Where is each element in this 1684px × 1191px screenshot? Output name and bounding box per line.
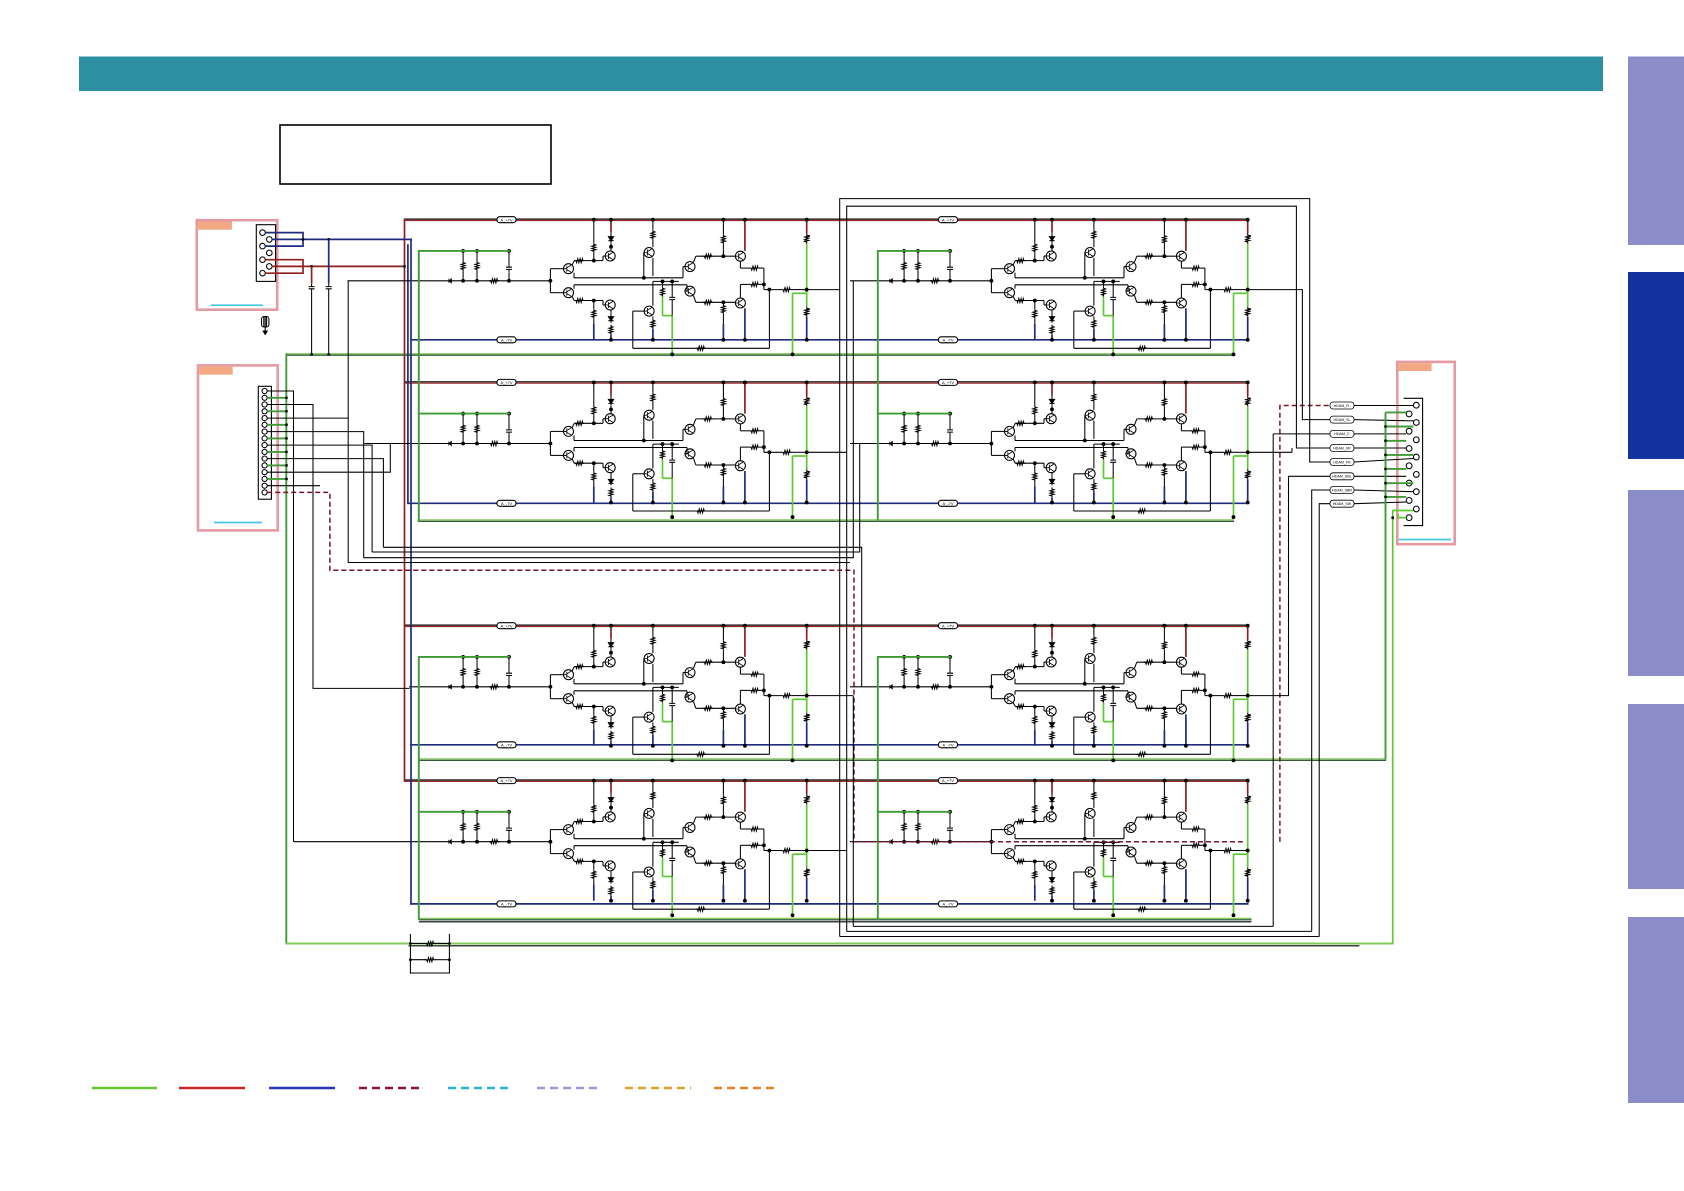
ground branch right rows3-4 bbox=[878, 657, 950, 919]
wire ground stubs J2 even pins bbox=[267, 398, 287, 479]
resistor RF1 bbox=[425, 942, 435, 946]
wire output row2 left bbox=[807, 451, 847, 453]
net tag A_-7V row3 left bbox=[497, 742, 516, 748]
board underline J3 bbox=[1399, 539, 1451, 541]
svg-text:HDAM_FL: HDAM_FL bbox=[1334, 404, 1351, 408]
amplifier block row4 right bbox=[850, 779, 1251, 917]
svg-text:HDAM_FR: HDAM_FR bbox=[1333, 460, 1351, 464]
pin J1-1 bbox=[260, 230, 266, 236]
MAIN SCHEMATIC bbox=[286, 219, 1385, 922]
legend cyan dashed bbox=[448, 1087, 513, 1090]
board underline J1 bbox=[211, 304, 263, 306]
sidebar tab 5 bbox=[1628, 917, 1684, 1103]
supply trunk blue left second bbox=[407, 245, 409, 503]
connector J2 shell bbox=[258, 386, 271, 499]
svg-text:HDAM_C: HDAM_C bbox=[1334, 432, 1350, 436]
legend green solid bbox=[92, 1087, 157, 1090]
board underline J2 bbox=[214, 522, 262, 524]
ground branch right row4 top bbox=[878, 811, 950, 813]
pin J1-7 bbox=[260, 270, 266, 276]
sidebar tab 4 bbox=[1628, 704, 1684, 889]
legend blue solid bbox=[269, 1087, 335, 1090]
wire signal J2 pin11 bbox=[267, 459, 383, 548]
power rail -7V row3 bbox=[411, 744, 1248, 746]
wire signal J2 pin9 bbox=[267, 445, 372, 552]
wire output row4 right to label7 bbox=[1312, 490, 1330, 931]
wire input row2 left bbox=[365, 443, 409, 445]
wire output row1 left bbox=[807, 289, 840, 291]
board swatch J1 bbox=[198, 222, 232, 230]
power rail -7V row4 bbox=[411, 903, 1248, 905]
net tag A_+7V row3 left bbox=[497, 623, 516, 629]
legend orange dashed bbox=[714, 1087, 779, 1090]
wire signal J2 pin1 bbox=[267, 391, 390, 842]
ground branch left rows1-2 bbox=[419, 251, 509, 521]
teal header bar bbox=[79, 57, 1603, 92]
net tag A_+7V row2 right bbox=[939, 379, 958, 385]
wire red pin6 feed bbox=[272, 265, 404, 267]
net tag A_-7V row1 right bbox=[939, 337, 958, 343]
wire red loop pins5-7 bbox=[265, 260, 303, 274]
svg-text:HDAM_SBR: HDAM_SBR bbox=[1332, 488, 1352, 492]
wire input row3 left bbox=[313, 687, 409, 689]
wire signal J2 pin7 bbox=[267, 432, 364, 558]
connector J2 box (lower left) bbox=[198, 365, 390, 841]
sidebar tab 2 (active) bbox=[1628, 272, 1684, 459]
wire run D bbox=[348, 281, 850, 563]
power rail +7V row2 bbox=[405, 381, 1248, 383]
wire input row4 left bbox=[294, 841, 409, 843]
pin J1-6 bbox=[267, 264, 273, 270]
pin J1-4 bbox=[267, 250, 273, 256]
chassis ground symbol bbox=[262, 317, 269, 335]
ground branch right row2 top bbox=[878, 413, 950, 415]
net tag A_-7V row4 left bbox=[497, 901, 516, 907]
connector J1 shell bbox=[256, 225, 275, 282]
power rail +7V row4 bbox=[405, 779, 1248, 781]
connector J3 box (right) bbox=[1354, 362, 1455, 944]
wire output row1 right bbox=[1248, 290, 1330, 420]
net label HDAM_FL bbox=[1330, 402, 1354, 507]
power rail +7V row3 bbox=[405, 624, 1248, 626]
wire output row3 left bbox=[807, 695, 854, 697]
ground branch right rows1-2 bbox=[878, 251, 950, 521]
ground rail row4 bbox=[419, 917, 1251, 919]
net tag A_+7V row1 right bbox=[939, 217, 958, 223]
ground branch left row4 top bbox=[419, 811, 509, 813]
net tag A_+7V row1 left bbox=[497, 217, 516, 223]
wire shield dashed from J2 pin16 bbox=[267, 406, 1330, 842]
ground branch left row2 top bbox=[419, 413, 509, 415]
wire signal J2 pin5 bbox=[267, 417, 348, 419]
amplifier block row3 left bbox=[409, 624, 810, 762]
legend red solid bbox=[179, 1087, 245, 1090]
resistor RF2 bbox=[425, 958, 435, 962]
net tag A_-7V row4 right bbox=[939, 901, 958, 907]
board swatch J3 bbox=[1399, 363, 1432, 371]
wire to label HDAM_C bbox=[1272, 434, 1274, 927]
sidebar tab 1 bbox=[1628, 57, 1684, 246]
wire signal J2 pin3 bbox=[267, 405, 313, 689]
amplifier block row4 left bbox=[409, 779, 810, 917]
svg-text:HDAM_SBL: HDAM_SBL bbox=[1332, 475, 1351, 479]
wire black under row4 ground bbox=[419, 921, 1251, 923]
net tag A_-7V row1 left bbox=[497, 337, 516, 343]
capacitor C-J1a bbox=[311, 266, 313, 283]
wire output row4 right to label8 bbox=[1319, 504, 1330, 937]
wire run C bbox=[364, 281, 854, 558]
net tag A_+7V row3 right bbox=[939, 623, 958, 629]
legend light-purple dashed bbox=[537, 1087, 601, 1090]
pin J1-2 bbox=[267, 237, 273, 243]
connector J3 shell bbox=[1404, 398, 1423, 525]
wire label lines to pins bbox=[1354, 406, 1413, 504]
wire label HDAM_C stub bbox=[1273, 433, 1330, 435]
wire signal J2 pin13 bbox=[267, 444, 390, 473]
ground trunk left bbox=[285, 354, 287, 943]
supply trunk red left bbox=[404, 220, 406, 781]
wire input row1 left bbox=[348, 280, 409, 282]
routing loop middle bbox=[847, 206, 1330, 931]
capacitor C-J1b bbox=[328, 239, 330, 283]
svg-text:HDAM_SR: HDAM_SR bbox=[1333, 446, 1351, 450]
svg-text:HDAM_SW: HDAM_SW bbox=[1333, 502, 1352, 506]
svg-text:HDAM_SL: HDAM_SL bbox=[1334, 418, 1351, 422]
wire signal J2 pin15 bbox=[267, 485, 320, 487]
net tag A_+7V row2 left bbox=[497, 379, 516, 385]
net tag A_+7V row4 left bbox=[497, 778, 516, 784]
feedback network R bottom-left bbox=[410, 935, 449, 974]
net tag A_-7V row2 right bbox=[939, 500, 958, 506]
wire blue loop pins1-3 bbox=[265, 233, 303, 247]
wire black under bottom bus bbox=[409, 945, 1359, 947]
connector J1 box (top left) bbox=[197, 220, 412, 356]
routing loop inner bottom bbox=[852, 696, 854, 927]
power rail +7V row1 bbox=[405, 218, 1248, 220]
power rail -7V row1 bbox=[411, 339, 1248, 341]
wire ground trunk J3 to bottom bus bbox=[1393, 511, 1414, 944]
ground rail row1 bbox=[286, 353, 1233, 355]
amplifier block row2 right bbox=[850, 381, 1251, 519]
net tag A_-7V row3 right bbox=[939, 742, 958, 748]
amplifier block row2 left bbox=[409, 381, 810, 519]
pin J1-3 bbox=[260, 243, 266, 249]
amplifier block row3 right bbox=[850, 624, 1251, 762]
wire run B bbox=[372, 444, 860, 553]
supply trunk blue left bbox=[410, 239, 412, 904]
net tag A_-7V row2 left bbox=[497, 500, 516, 506]
ground rail row3 bbox=[419, 758, 1386, 760]
legend amber dashed bbox=[625, 1087, 691, 1090]
ground rail row2 bbox=[418, 519, 1233, 521]
amplifier block row1 left bbox=[409, 218, 810, 355]
title box bbox=[280, 125, 551, 184]
ground bottom bus bbox=[286, 943, 1392, 945]
power rail -7V row2 bbox=[408, 502, 1248, 504]
pin J1-5 bbox=[260, 257, 266, 263]
net tag A_+7V row4 right bbox=[939, 778, 958, 784]
routing loop outer bbox=[807, 199, 1330, 937]
wire run A bbox=[348, 281, 862, 687]
wire output row4 left bbox=[807, 850, 847, 852]
wire ground bus J3 bbox=[1385, 412, 1387, 759]
wire output row2 right bbox=[1248, 451, 1292, 453]
ground branch left rows3-4 bbox=[419, 657, 509, 919]
pins J2 1-16 bbox=[262, 388, 267, 495]
amplifier block row1 right bbox=[850, 218, 1251, 355]
wire ground stubs J3 bbox=[1386, 412, 1414, 497]
sidebar tab 3 bbox=[1628, 490, 1684, 676]
pins J3 1-14 bbox=[1406, 402, 1419, 520]
board swatch J2 bbox=[199, 367, 232, 375]
legend dark-red dashed bbox=[359, 1087, 423, 1090]
wire output row3 right bbox=[1248, 476, 1330, 695]
wire blue pin2 feed bbox=[272, 238, 412, 240]
